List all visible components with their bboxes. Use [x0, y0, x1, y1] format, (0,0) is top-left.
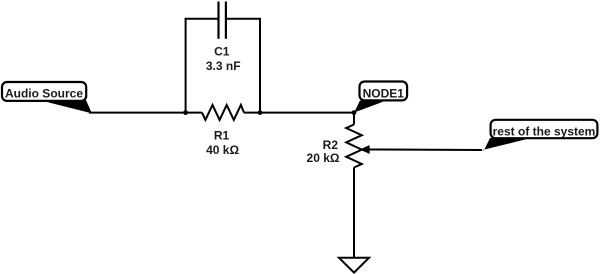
svg-text:NODE1: NODE1	[363, 86, 405, 100]
svg-text:rest of the system: rest of the system	[493, 125, 596, 139]
svg-text:3.3 nF: 3.3 nF	[206, 59, 241, 73]
node junction left of R1	[183, 110, 188, 115]
wire: R2 to ground	[353, 168, 355, 258]
resistor R1	[202, 105, 244, 120]
wire: wiper to rest-of-system tail	[368, 149, 482, 152]
node junction right of R1	[258, 110, 263, 115]
svg-text:C1: C1	[214, 45, 230, 59]
wire: NODE1 down to R2	[353, 113, 355, 125]
svg-text:20 kΩ: 20 kΩ	[307, 151, 340, 165]
svg-text:R1: R1	[214, 128, 230, 142]
wire: loop left vertical	[185, 19, 187, 113]
svg-text:Audio Source: Audio Source	[5, 86, 83, 100]
flag Audio Source	[2, 82, 92, 113]
flag rest of the system	[482, 120, 598, 151]
ground	[339, 258, 369, 273]
flag NODE1	[354, 82, 407, 113]
wire: loop right vertical	[259, 19, 261, 113]
wiper arrowhead	[360, 145, 370, 154]
wire: loop top left segment	[185, 18, 219, 20]
capacitor C1	[219, 2, 226, 39]
node junction NODE1	[352, 110, 357, 115]
wire: loop top right segment	[226, 18, 261, 20]
svg-text:40 kΩ: 40 kΩ	[206, 143, 239, 157]
wire: audio source tail to R1 left junction	[89, 112, 202, 114]
wire: R1 right junction to NODE1 junction	[244, 112, 354, 114]
resistor R2 (potentiometer)	[346, 125, 362, 168]
